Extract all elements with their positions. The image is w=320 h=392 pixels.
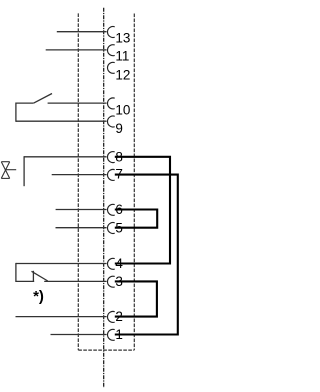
svg-text:9: 9 bbox=[115, 121, 123, 136]
svg-text:8: 8 bbox=[115, 149, 123, 164]
svg-text:5: 5 bbox=[115, 220, 123, 235]
svg-text:13: 13 bbox=[115, 31, 130, 46]
svg-text:*): *) bbox=[33, 288, 44, 305]
svg-text:2: 2 bbox=[115, 309, 123, 324]
svg-text:12: 12 bbox=[115, 68, 130, 83]
svg-text:7: 7 bbox=[115, 167, 123, 182]
svg-text:6: 6 bbox=[115, 202, 123, 217]
svg-text:1: 1 bbox=[115, 327, 123, 342]
svg-text:10: 10 bbox=[115, 103, 130, 118]
svg-text:3: 3 bbox=[115, 274, 123, 289]
svg-text:4: 4 bbox=[115, 256, 123, 271]
svg-text:11: 11 bbox=[115, 48, 129, 63]
